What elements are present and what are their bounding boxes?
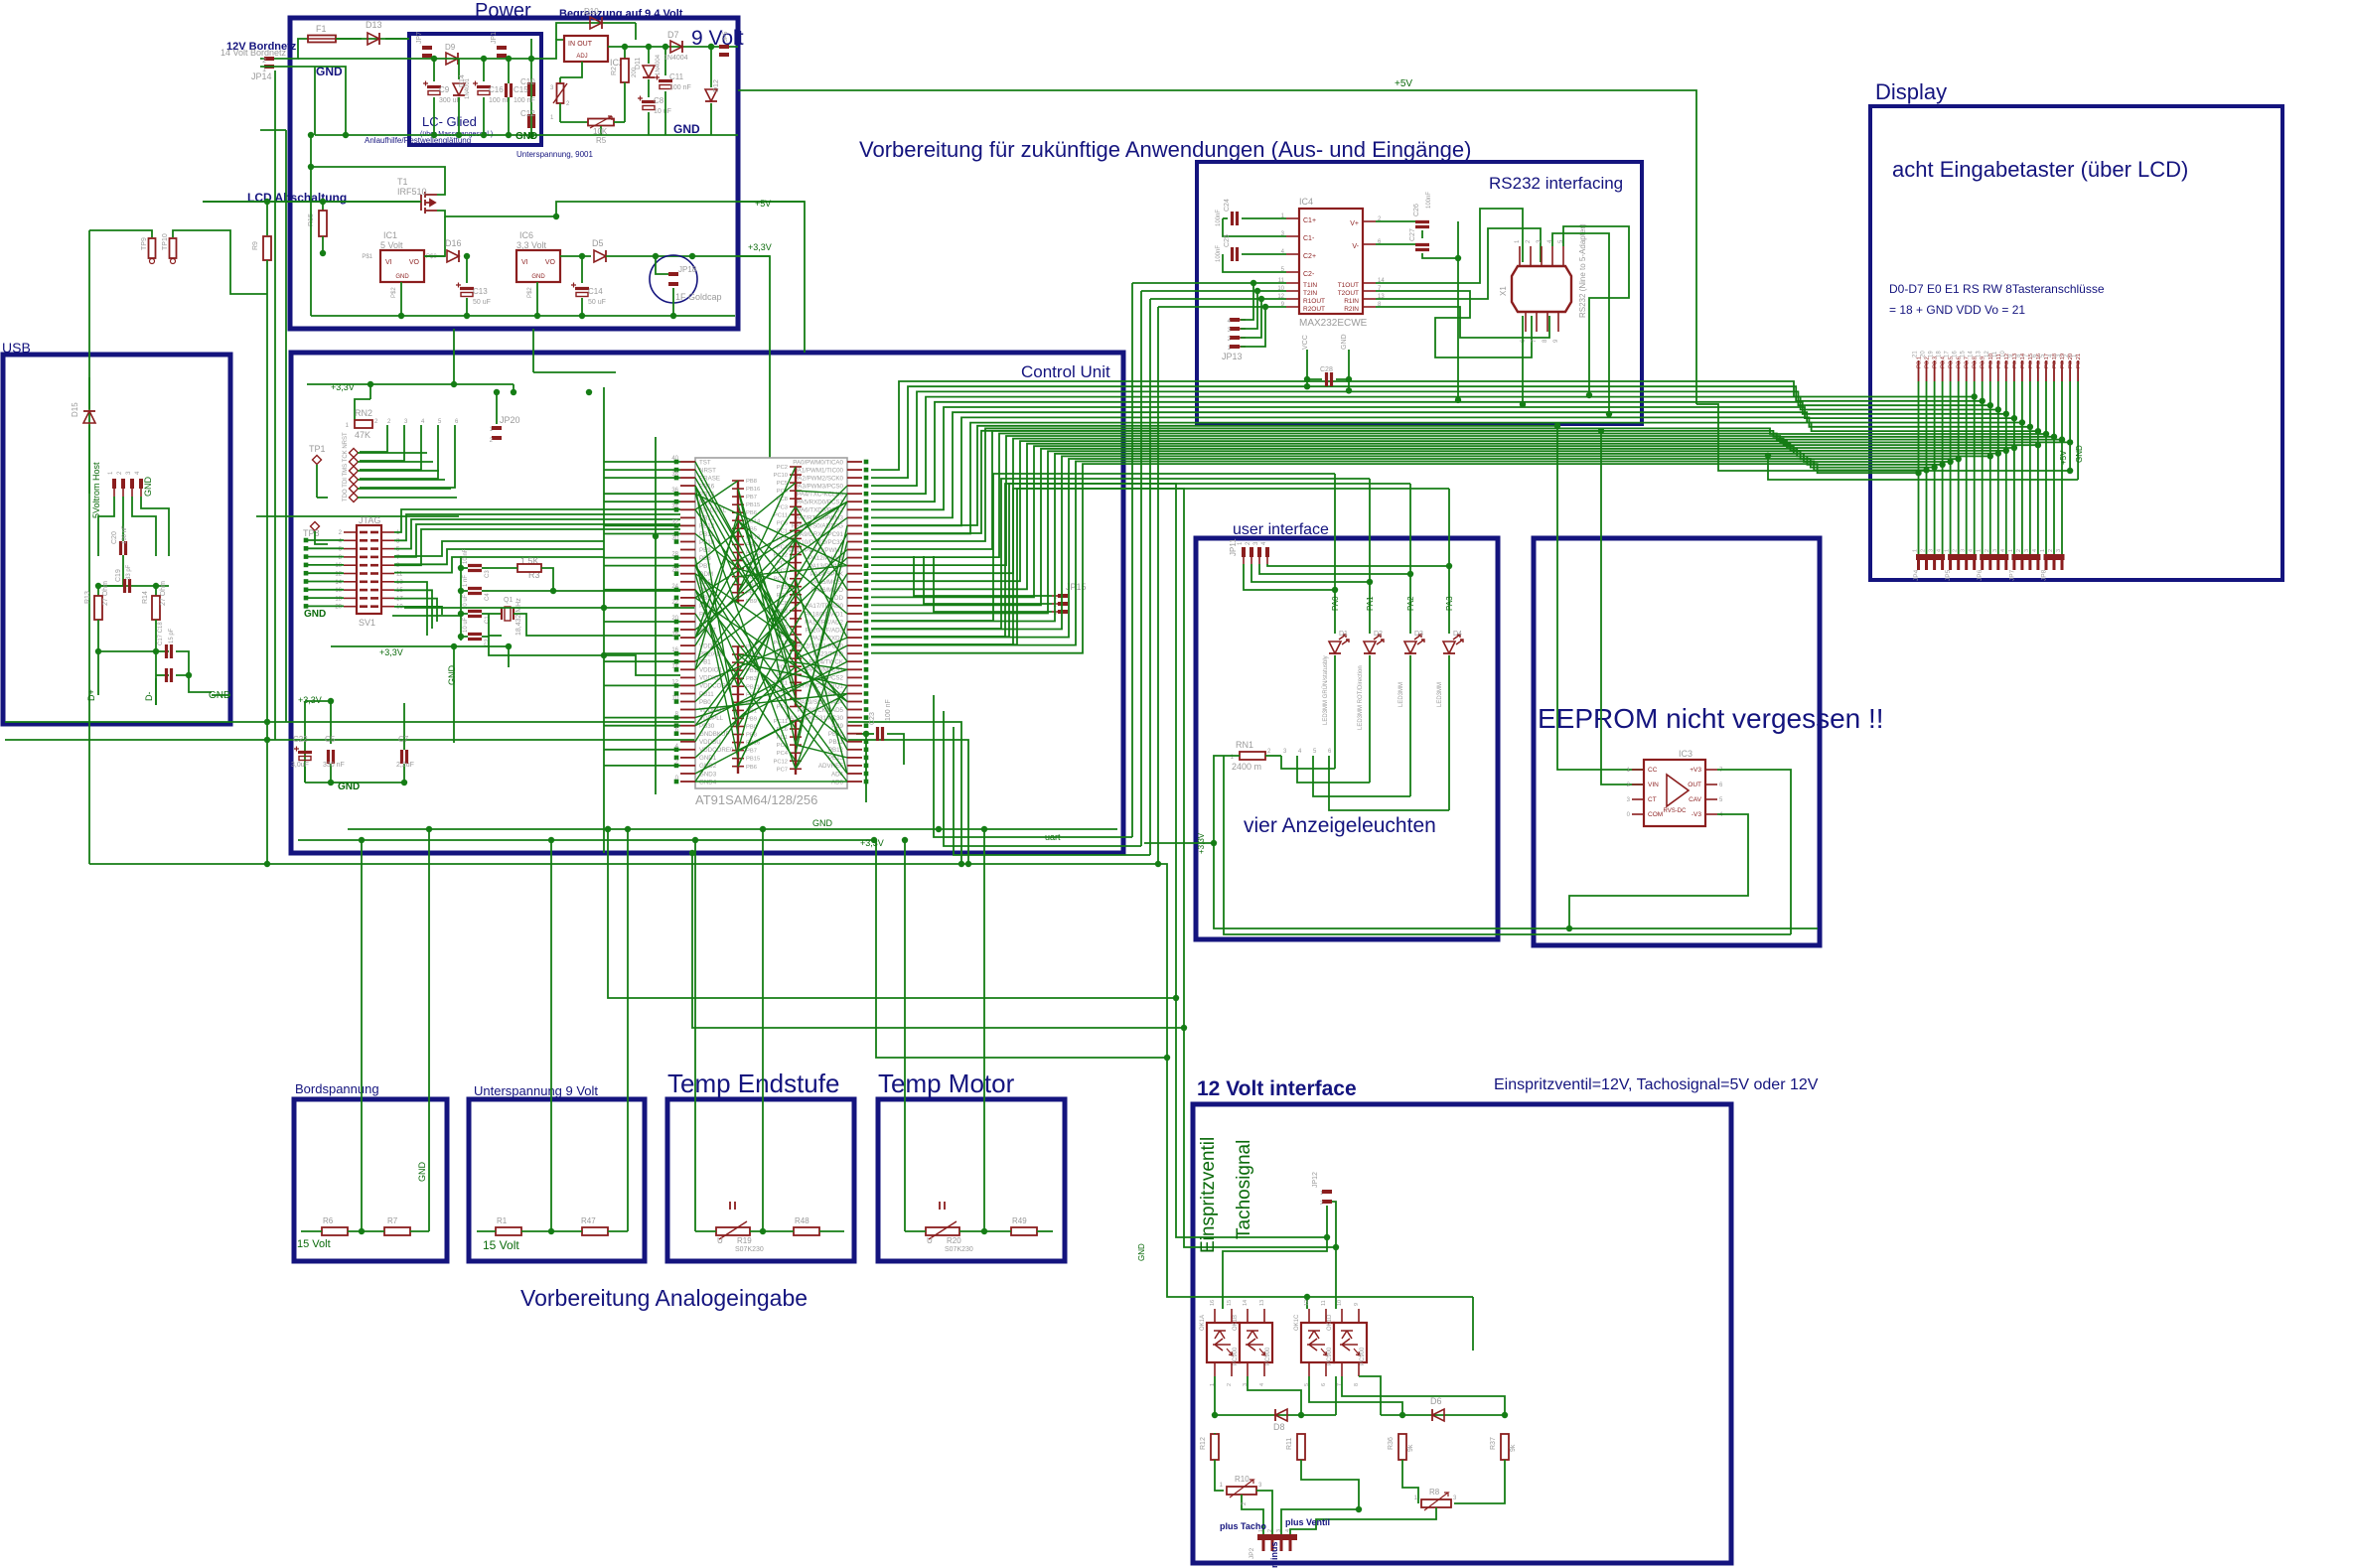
- svg-text:3: 3: [1961, 549, 1967, 552]
- svg-text:JP18: JP18: [678, 265, 697, 274]
- wire IC2 out rail: [608, 46, 738, 48]
- svg-text:C28: C28: [1320, 366, 1333, 373]
- svg-text:PB30: PB30: [699, 723, 715, 730]
- crystal Q1: [489, 590, 553, 592]
- svg-text:Temp Endstufe: Temp Endstufe: [667, 1069, 839, 1098]
- svg-text:3: 3: [1992, 549, 1998, 552]
- svg-text:PA0/PWM0/TICA0: PA0/PWM0/TICA0: [793, 459, 843, 466]
- svg-text:PC900: PC900: [1265, 1347, 1271, 1365]
- svg-text:100nF: 100nF: [1426, 192, 1432, 209]
- svg-text:Temp Motor: Temp Motor: [878, 1069, 1015, 1098]
- svg-text:PA2: PA2: [1406, 596, 1415, 611]
- svg-text:D11: D11: [635, 58, 642, 70]
- svg-text:LED3MM: LED3MM: [1437, 682, 1443, 707]
- svg-text:C12: C12: [520, 109, 535, 118]
- svg-text:D7: D7: [667, 30, 679, 40]
- svg-text:C8: C8: [654, 96, 664, 105]
- wire usb D- down: [155, 678, 157, 705]
- wire T1 source down: [437, 211, 556, 216]
- svg-text:10 nF: 10 nF: [463, 548, 469, 564]
- svg-text:27 Ohm: 27 Ohm: [102, 581, 109, 606]
- svg-text:5Voltrom Host: 5Voltrom Host: [91, 462, 101, 518]
- svg-text:GND: GND: [447, 665, 457, 686]
- diode D15: [88, 377, 90, 409]
- svg-text:JP14: JP14: [251, 71, 272, 81]
- svg-text:PB16: PB16: [746, 487, 760, 493]
- svg-text:D0-D7 E0 E1 RS RW 8Tastera: D0-D7 E0 E1 RS RW 8Tasteranschlüsse: [1889, 282, 2105, 296]
- wire bus middle group to display: [871, 428, 2046, 541]
- wire R1OUT to uart bus: [1150, 298, 1261, 300]
- svg-text:R7: R7: [387, 1216, 398, 1225]
- IC4 left pins: [1286, 217, 1299, 219]
- wires JTAG extra to MCU: [394, 541, 604, 556]
- wire R2OUT to uart bus: [1158, 306, 1265, 308]
- svg-text:15: 15: [1227, 1300, 1233, 1306]
- svg-text:T1OUT: T1OUT: [1338, 282, 1359, 289]
- wire usb D+ down: [97, 678, 99, 695]
- svg-text:100 nF: 100 nF: [669, 84, 691, 91]
- wires JP12 down: [1326, 1206, 1328, 1237]
- wire 12V feeder B: [871, 489, 1336, 1247]
- svg-text:TP8: TP8: [303, 528, 320, 538]
- wire usb mid node: [98, 585, 169, 587]
- capacitor C12: [529, 114, 534, 128]
- svg-text:18: 18: [671, 632, 678, 638]
- svg-text:R37: R37: [1490, 1437, 1497, 1450]
- svg-text:JP11: JP11: [1229, 538, 1238, 556]
- svg-text:RN2: RN2: [355, 408, 372, 418]
- svg-text:GND: GND: [304, 609, 326, 620]
- test point TP1: [313, 456, 322, 465]
- svg-text:Anlaufhilfe/Restwellenglättung: Anlaufhilfe/Restwellenglättung: [365, 136, 471, 145]
- resistor network RN2 47K: [369, 384, 371, 399]
- svg-text:PB11: PB11: [746, 684, 760, 690]
- 395: [392, 615, 461, 617]
- connector JP7: [422, 46, 432, 50]
- svg-text:D12: D12: [713, 79, 720, 92]
- svg-text:plus Tacho: plus Tacho: [1220, 1521, 1266, 1531]
- svg-text:C27: C27: [1409, 228, 1416, 241]
- svg-text:15 pF: 15 pF: [169, 628, 175, 643]
- svg-text:20: 20: [1921, 351, 1927, 357]
- svg-text:Vorbereitung für zukünftige An: Vorbereitung für zukünftige Anwendungen …: [859, 137, 1471, 162]
- test pin T9: [149, 238, 156, 258]
- diode D10 top loop: [556, 23, 636, 40]
- wire uart bundle: [934, 695, 1132, 837]
- wire ui bottom rail: [1214, 843, 1818, 928]
- capacitor C5 330nF: [329, 750, 334, 764]
- capacitor C14 50uF: [581, 256, 583, 283]
- svg-text:RS232 (Nine to 5-Adapter): RS232 (Nine to 5-Adapter): [1578, 223, 1587, 318]
- svg-text:2,2uF: 2,2uF: [396, 762, 414, 769]
- svg-text:PC900: PC900: [1233, 1347, 1239, 1365]
- svg-text:1: 1: [1945, 549, 1951, 552]
- wire uart link 3 to RS232 R1OUT: [1149, 299, 1151, 855]
- svg-text:3: 3: [2024, 549, 2030, 552]
- svg-text:6: 6: [1321, 1383, 1327, 1386]
- test point diamonds column: [350, 449, 359, 458]
- wire +3,3V out of power: [738, 256, 770, 722]
- svg-text:Unterspannung, 9001: Unterspannung, 9001: [516, 150, 594, 159]
- resistor R7: [384, 1227, 410, 1235]
- CU bottom rails: [348, 828, 1117, 830]
- wire D13 to LC-Glied: [385, 38, 409, 40]
- svg-text:PB15: PB15: [746, 502, 760, 508]
- capacitor C23 100nF: [856, 733, 866, 735]
- svg-text:C17 C18: C17 C18: [158, 622, 164, 645]
- LED D4: [1443, 641, 1455, 653]
- svg-text:IC1: IC1: [383, 230, 397, 240]
- svg-text:D3: D3: [1414, 631, 1423, 638]
- svg-text:C19: C19: [115, 569, 122, 582]
- thermistor R20 S07K230: [926, 1227, 959, 1235]
- wire LCD Abschaltung: [203, 201, 421, 203]
- svg-text:C14: C14: [588, 287, 603, 296]
- svg-text:8: 8: [1354, 1383, 1360, 1386]
- GND bus bottom of power box: [311, 315, 735, 317]
- svg-text:C5: C5: [325, 735, 336, 744]
- diode D13: [368, 33, 379, 45]
- connector JP2: [1257, 1534, 1297, 1540]
- svg-text:PA9/DRXD/PC91: PA9/DRXD/PC91: [796, 531, 843, 538]
- svg-text:Tachosignal: Tachosignal: [1234, 1140, 1254, 1239]
- svg-text:R13: R13: [84, 591, 91, 604]
- resistor R48: [794, 1227, 819, 1235]
- capacitor C25 100nF: [1242, 253, 1286, 255]
- svg-text:PA1/PWM1/TIC00: PA1/PWM1/TIC00: [794, 467, 844, 474]
- capacitor C16 100nF: [483, 59, 485, 81]
- svg-text:MAX232ECWE: MAX232ECWE: [1299, 318, 1368, 329]
- wire T1 source to IC1: [380, 216, 445, 256]
- svg-text:D15: D15: [71, 402, 79, 417]
- svg-text:LED3MM GRÜN/statusbly: LED3MM GRÜN/statusbly: [1322, 655, 1329, 725]
- svg-text:4: 4: [1285, 1529, 1291, 1532]
- wires JP15 to bus: [914, 556, 1052, 596]
- connector JP1: [497, 46, 507, 50]
- svg-text:C1+: C1+: [1303, 217, 1316, 224]
- wire R10 wiper: [1242, 1495, 1263, 1534]
- svg-text:C2-: C2-: [1303, 271, 1315, 278]
- svg-text:IRF510: IRF510: [397, 187, 427, 197]
- diode D12: [710, 47, 712, 87]
- wire T2IN to uart bus: [1141, 290, 1257, 292]
- LED column verticals: [1334, 474, 1336, 634]
- svg-text:D+: D+: [86, 689, 96, 701]
- svg-text:TP9: TP9: [141, 237, 148, 250]
- svg-text:CT: CT: [1648, 796, 1657, 803]
- svg-text:C13: C13: [473, 287, 488, 296]
- wires JP12 node down to optos: [1223, 1237, 1327, 1309]
- resistor R15: [322, 202, 324, 211]
- Unterspannung internals: [550, 840, 552, 1231]
- DB9 pins bottom: [1525, 312, 1527, 332]
- RN1 ladder wires: [1281, 756, 1335, 769]
- wire R8 wiper: [1290, 1507, 1436, 1534]
- svg-text:19: 19: [1929, 351, 1935, 357]
- wire 457 from power: [453, 353, 455, 384]
- svg-text:PB7: PB7: [746, 495, 757, 500]
- svg-text:15 Volt: 15 Volt: [297, 1238, 331, 1250]
- svg-text:PB3: PB3: [746, 676, 757, 682]
- wire power to CU vertical B: [532, 329, 534, 353]
- capacitor C20 100nF: [121, 541, 126, 555]
- GND rail under caps: [305, 782, 404, 784]
- Bordspannung internals: [361, 840, 363, 1231]
- connector JP5 9V out: [719, 45, 729, 49]
- capacitor C19 33pF: [125, 579, 130, 593]
- svg-text:IC3: IC3: [1679, 749, 1692, 759]
- transistor T1 IRF510 MOSFET: [421, 192, 437, 214]
- svg-text:3,3 Volt: 3,3 Volt: [516, 240, 547, 250]
- svg-text:PB0: PB0: [699, 699, 711, 706]
- svg-text:100nF: 100nF: [1216, 245, 1222, 262]
- svg-text:9: 9: [1354, 1303, 1360, 1306]
- svg-text:SV1: SV1: [359, 618, 375, 628]
- svg-text:GND4: GND4: [699, 779, 717, 785]
- svg-text:+5V: +5V: [2059, 450, 2068, 465]
- MCU inner pin column 2: [795, 467, 797, 707]
- diode D11 1N4004: [648, 47, 650, 64]
- svg-text:PB7: PB7: [746, 749, 757, 755]
- svg-text:300 uF: 300 uF: [439, 97, 461, 104]
- svg-text:100 nF: 100 nF: [122, 525, 128, 544]
- svg-text:P$2: P$2: [527, 287, 533, 298]
- wire bus upper group to display: [871, 381, 1975, 470]
- resistor R1: [496, 1227, 521, 1235]
- svg-text:JP7: JP7: [416, 32, 423, 44]
- svg-text:U: U: [927, 1236, 933, 1245]
- wire uart link 4 to RS232 R2OUT: [1157, 307, 1159, 864]
- svg-text:2: 2: [1227, 1383, 1233, 1386]
- svg-text:R12: R12: [1200, 1437, 1207, 1450]
- 258: [256, 515, 459, 517]
- svg-text:D-: D-: [144, 692, 154, 702]
- svg-text:PA15/MOSI: PA15/MOSI: [811, 579, 843, 586]
- DB9 pins top: [1519, 246, 1521, 266]
- svg-text:100 nF: 100 nF: [514, 97, 535, 104]
- capacitor C9 300uF: [433, 59, 435, 81]
- resistor network RN1 2400 Ohm: [1240, 752, 1265, 760]
- svg-text:D10: D10: [584, 7, 599, 16]
- svg-text:T2OUT: T2OUT: [1338, 290, 1359, 297]
- svg-text:COM: COM: [1648, 811, 1663, 818]
- svg-text:2: 2: [1921, 549, 1927, 552]
- svg-text:Vorbereitung Analogeingabe: Vorbereitung Analogeingabe: [520, 1285, 808, 1311]
- wire IC6 GND: [536, 282, 538, 316]
- svg-text:13: 13: [1977, 351, 1983, 357]
- svg-text:D16: D16: [445, 238, 462, 248]
- svg-text:12 Volt interface: 12 Volt interface: [1197, 1077, 1357, 1100]
- svg-text:user interface: user interface: [1233, 521, 1329, 538]
- svg-text:Einspritzventil=12V, Tachosign: Einspritzventil=12V, Tachosignal=5V oder…: [1494, 1076, 1819, 1093]
- capacitor C26: [1376, 220, 1415, 222]
- capacitor C17: [98, 650, 169, 652]
- svg-text:JP12: JP12: [1312, 1172, 1319, 1188]
- svg-text:1: 1: [1977, 549, 1983, 552]
- wire GND into optos: [1304, 1294, 1310, 1300]
- Temp Endstufe internals: [694, 840, 696, 1231]
- MCU right pin row: [847, 461, 862, 463]
- wire 3.3V out: [606, 255, 770, 257]
- svg-text:PA3/PWM3/PCS0: PA3/PWM3/PCS0: [795, 483, 844, 490]
- optocoupler OK1B: [1240, 1323, 1272, 1362]
- svg-text:P3.21: P3.21: [2076, 354, 2082, 368]
- svg-text:+V3: +V3: [1690, 767, 1701, 774]
- frame: USB section box: [3, 355, 230, 724]
- svg-text:TP1: TP1: [309, 444, 326, 454]
- svg-text:330 nF: 330 nF: [323, 762, 345, 769]
- +3,3V mid rail: [331, 645, 509, 647]
- wire EEPROM feeder 2: [871, 431, 1644, 784]
- svg-text:C4: C4: [485, 593, 491, 601]
- svg-text:R20: R20: [947, 1236, 961, 1245]
- wire +5V feed to display column 20: [1696, 404, 2070, 471]
- svg-text:X1: X1: [1499, 286, 1508, 296]
- svg-text:C1: C1: [485, 616, 491, 624]
- svg-text:JP20: JP20: [500, 415, 520, 425]
- wire GND long run bottom: [89, 864, 1473, 1297]
- svg-text:4: 4: [1969, 549, 1975, 552]
- capacitor C24 100nF: [1242, 217, 1286, 219]
- svg-text:GND: GND: [143, 477, 153, 498]
- svg-text:OK1A: OK1A: [1200, 1315, 1206, 1331]
- svg-text:R47: R47: [581, 1216, 596, 1225]
- display pin columns red stubs: [1918, 360, 1920, 381]
- svg-text:USB: USB: [2, 340, 31, 356]
- svg-text:PC900: PC900: [1360, 1347, 1366, 1365]
- svg-text:C24: C24: [1224, 199, 1231, 212]
- svg-text:3: 3: [2056, 549, 2062, 552]
- svg-text:15 Volt: 15 Volt: [483, 1238, 519, 1252]
- wire gate: [203, 201, 421, 203]
- svg-text:IN: IN: [568, 41, 575, 48]
- svg-text:Einspritzventil: Einspritzventil: [1198, 1137, 1219, 1253]
- wire main 12V rail y59: [298, 58, 409, 60]
- svg-text:GND: GND: [1137, 1243, 1146, 1261]
- resistor R49: [1011, 1227, 1037, 1235]
- svg-text:2: 2: [1953, 549, 1959, 552]
- svg-text:GND: GND: [395, 274, 409, 280]
- svg-text:21: 21: [1913, 351, 1919, 357]
- svg-text:2: 2: [2016, 549, 2022, 552]
- svg-text:PA1: PA1: [1366, 596, 1375, 611]
- test point TP8: [311, 522, 320, 531]
- wire LC rail: [409, 58, 541, 60]
- wire bundle inside MCU: [695, 486, 796, 666]
- svg-text:C1-: C1-: [1303, 235, 1315, 242]
- svg-text:CAV: CAV: [1689, 796, 1702, 803]
- frame: Display section box: [1870, 106, 2282, 580]
- svg-text:GND: GND: [673, 122, 700, 136]
- svg-text:S07K230: S07K230: [945, 1246, 973, 1253]
- svg-text:U: U: [717, 1236, 723, 1245]
- GND bus in power box: [315, 134, 738, 136]
- diode D9: [446, 53, 458, 65]
- svg-text:PA2/PWM2/SCK0: PA2/PWM2/SCK0: [795, 475, 844, 482]
- svg-text:C20: C20: [111, 531, 118, 544]
- wire GND bus to left rail: [310, 135, 312, 316]
- LED D1: [1329, 641, 1341, 653]
- diode D7 1N4004: [670, 41, 682, 53]
- svg-text:T1: T1: [397, 177, 408, 187]
- svg-text:R11: R11: [1286, 1438, 1293, 1450]
- svg-text:100 nF: 100 nF: [489, 97, 511, 104]
- svg-text:R1: R1: [497, 1216, 508, 1225]
- svg-text:D4: D4: [1453, 631, 1462, 638]
- svg-text:PA5/RXD0/PCS1: PA5/RXD0/PCS1: [797, 499, 844, 506]
- svg-text:CC: CC: [1648, 767, 1658, 774]
- capacitor C27: [1376, 243, 1415, 245]
- svg-text:acht Eingabetaster (über LCD): acht Eingabetaster (über LCD): [1892, 157, 2188, 182]
- svg-text:14: 14: [1243, 1300, 1249, 1306]
- svg-text:50 uF: 50 uF: [473, 299, 491, 306]
- wire T9 T10 testpoint net: [89, 230, 152, 237]
- svg-text:VO: VO: [409, 259, 420, 266]
- svg-text:2: 2: [2048, 549, 2054, 552]
- svg-text:10K: 10K: [593, 127, 608, 136]
- IC IC3 DC-DC body: [1644, 760, 1705, 826]
- svg-text:ADJ: ADJ: [576, 54, 587, 60]
- wires crystal to MCU: [553, 590, 680, 592]
- svg-text:V+: V+: [1350, 220, 1359, 227]
- svg-text:PC7: PC7: [777, 767, 788, 773]
- wire input branch down to C10/C12: [530, 39, 532, 59]
- wire IC1 GND: [400, 282, 402, 316]
- svg-text:27 Ohm: 27 Ohm: [160, 581, 167, 606]
- wire rail to IC2: [541, 40, 564, 59]
- capacitor C7 2,2uF: [403, 703, 405, 750]
- svg-text:PC900: PC900: [1327, 1347, 1333, 1365]
- svg-text:PC5: PC5: [777, 481, 788, 487]
- svg-text:50 uF: 50 uF: [588, 299, 606, 306]
- frame: RS232 interfacing box: [1197, 162, 1642, 424]
- svg-text:1N4001: 1N4001: [465, 77, 471, 99]
- svg-text:26: 26: [671, 568, 678, 574]
- display vertical green columns: [1918, 381, 1920, 554]
- frame: Control Unit section box: [291, 353, 1123, 853]
- capacitor C8 10uF: [648, 79, 650, 97]
- svg-text:T2IN: T2IN: [1303, 290, 1317, 297]
- svg-text:GND: GND: [417, 1162, 427, 1183]
- svg-text:17: 17: [1945, 351, 1951, 357]
- MCU left side feeder bus: [603, 387, 605, 853]
- svg-text:R14: R14: [142, 591, 149, 604]
- resistor R9: [266, 202, 268, 235]
- diode D16: [424, 255, 445, 257]
- wire left vertical x277 from JP14: [274, 71, 276, 740]
- svg-text:Unterspannung 9 Volt: Unterspannung 9 Volt: [474, 1083, 598, 1098]
- svg-text:JP13: JP13: [1222, 352, 1243, 361]
- svg-text:1: 1: [2008, 549, 2014, 552]
- svg-text:Display: Display: [1875, 79, 1947, 104]
- svg-text:C7: C7: [398, 735, 409, 744]
- svg-text:R9: R9: [252, 241, 259, 250]
- svg-text:10 uF: 10 uF: [654, 108, 671, 115]
- thermistor R19 S07K230: [716, 1227, 750, 1235]
- wire GND from JP14 pin1: [260, 67, 346, 135]
- diode D14 1N4001: [458, 59, 460, 79]
- frame: user interface box: [1196, 538, 1498, 939]
- svg-text:9k: 9k: [1407, 1444, 1414, 1452]
- svg-text:R49: R49: [1012, 1216, 1027, 1225]
- IC U2 AT91SAM64/128/256 body: [695, 458, 847, 788]
- IC U IC2 body: [564, 36, 608, 62]
- svg-text:vier Anzeigeleuchten: vier Anzeigeleuchten: [1244, 814, 1436, 837]
- svg-text:R1IN: R1IN: [1344, 298, 1359, 305]
- fuse F1: [308, 36, 336, 43]
- connector JP12: [1322, 1190, 1332, 1194]
- svg-text:RS232 interfacing: RS232 interfacing: [1489, 174, 1623, 193]
